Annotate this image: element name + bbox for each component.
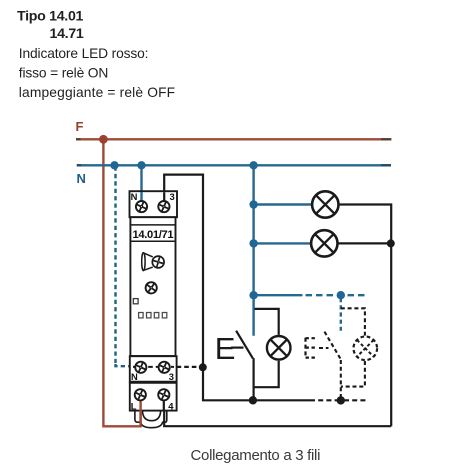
svg-text:N: N [131,371,138,382]
svg-text:3: 3 [170,191,175,202]
svg-text:14.71: 14.71 [50,26,84,42]
svg-text:Indicatore LED rosso:: Indicatore LED rosso: [19,46,149,61]
svg-text:3: 3 [169,371,174,382]
svg-text:F: F [76,119,84,134]
svg-text:Tipo 14.01: Tipo 14.01 [17,9,84,25]
svg-text:Collegamento a 3 fili: Collegamento a 3 fili [191,447,321,464]
svg-text:N: N [77,171,86,186]
svg-text:lampeggiante = relè OFF: lampeggiante = relè OFF [19,85,175,100]
svg-text:L: L [131,400,137,411]
svg-text:fisso = relè ON: fisso = relè ON [19,65,108,80]
svg-text:14.01/71: 14.01/71 [133,229,174,241]
svg-text:N: N [131,191,138,202]
svg-text:4: 4 [168,400,174,411]
svg-text:E: E [215,331,236,366]
